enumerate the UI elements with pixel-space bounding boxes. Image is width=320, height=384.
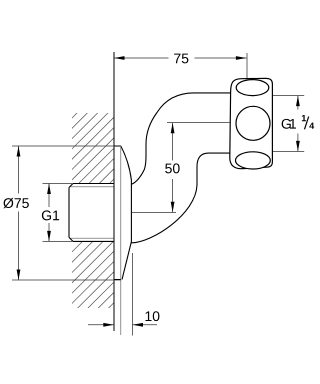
nut bottom ellipse — [236, 152, 271, 169]
union nut body — [230, 78, 273, 168]
dimension 10 — [88, 253, 159, 336]
dimension G1 — [42, 184, 72, 242]
dimension Ø75 extension lines — [12, 146, 121, 280]
wall face line — [113, 52, 115, 331]
dimension G1 1/4 — [273, 96, 314, 152]
pipe lower outline — [131, 153, 230, 243]
escutcheon disc — [114, 146, 121, 280]
escutcheon cone — [121, 146, 132, 280]
wall hatch — [57, 33, 157, 384]
pipe upper outline with fillet — [132, 93, 231, 184]
dimension Ø75 — [3, 146, 28, 280]
dimension 75 — [114, 53, 247, 78]
threaded stub G1 — [69, 184, 114, 242]
nut top ellipse — [236, 80, 269, 96]
nut middle circle — [236, 106, 270, 140]
dimension 50 — [131, 123, 229, 213]
